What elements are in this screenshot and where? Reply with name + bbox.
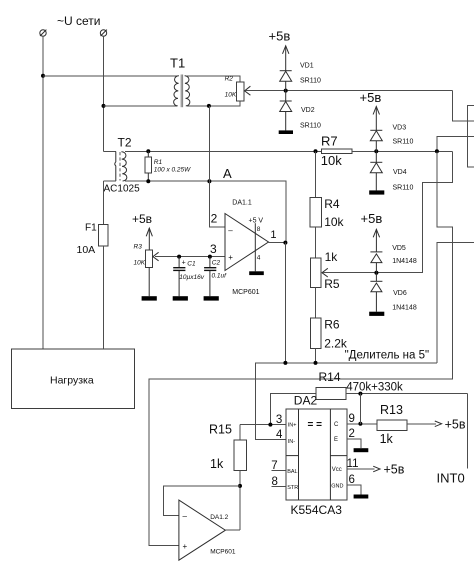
node junction bus / DA1.1 out (283, 361, 287, 365)
power arrow +5в above VD3 (373, 107, 379, 131)
svg-text:10K: 10K (225, 91, 237, 98)
svg-text:+5в: +5в (361, 211, 383, 226)
potentiometer R3 (134, 244, 159, 297)
svg-text:+: + (182, 259, 186, 266)
svg-text:F1: F1 (85, 222, 97, 233)
svg-text:6: 6 (349, 474, 355, 486)
svg-text:VD4: VD4 (393, 169, 407, 176)
svg-text:"Делитель на 5": "Делитель на 5" (345, 350, 430, 362)
wire T1 primary bottom (104, 105, 178, 107)
svg-text:+5в: +5в (445, 418, 466, 432)
svg-text:8: 8 (257, 226, 261, 233)
label +5в (R13) (445, 418, 466, 432)
resistor R4 (310, 151, 345, 229)
svg-text:~U сети: ~U сети (57, 14, 100, 28)
node junction right branch (435, 149, 439, 153)
wire node A line (125, 181, 286, 242)
svg-text:470k+330k: 470k+330k (346, 381, 403, 393)
svg-text:+: + (228, 253, 233, 262)
node junction R1 top (146, 149, 150, 153)
wire T1 secondary top to R2 (187, 76, 240, 82)
svg-text:SR110: SR110 (300, 78, 321, 85)
ground under C1 (173, 296, 188, 300)
pin 9 wire DA2 to R13 (347, 423, 377, 425)
ground under VD6 (369, 312, 384, 316)
svg-text:–: – (183, 512, 188, 521)
power arrow +5в above VD5 (373, 229, 379, 252)
node junction R2 bottom wire / node A column (207, 104, 211, 108)
svg-text:+5 V: +5 V (249, 217, 264, 224)
label +5в (R3) (132, 212, 152, 226)
svg-text:T1: T1 (170, 56, 185, 71)
pin label 2 (349, 428, 355, 440)
node A junction (207, 179, 211, 183)
wire R3 wiper to DA1.1 + input (155, 256, 225, 258)
op-amp DA1.2 (179, 500, 236, 560)
svg-text:STR: STR (287, 485, 298, 491)
wire DA1.1 output (269, 242, 286, 244)
pin label 11 (347, 458, 359, 470)
wire divider bus (256, 363, 437, 440)
node junction R1 bottom (146, 179, 150, 183)
svg-text:3: 3 (276, 414, 282, 426)
pin label 7 (271, 460, 277, 472)
svg-text:IN+: IN+ (288, 423, 297, 429)
svg-text:3: 3 (210, 242, 217, 256)
svg-text:SR110: SR110 (393, 185, 414, 192)
svg-text:VD5: VD5 (392, 245, 406, 252)
node junction pin9/R14 (358, 422, 362, 426)
resistor R13 (377, 403, 407, 446)
svg-text:10A: 10A (77, 244, 96, 256)
label DA2 (294, 394, 318, 408)
ground under C2 (204, 296, 219, 300)
pin 3 wire DA2 (240, 424, 286, 426)
pin label 9 (349, 413, 355, 425)
label +5в (pin 11) (384, 462, 405, 476)
ground under DA1.1 pin4 (249, 271, 264, 275)
capacitor C2 (204, 257, 227, 297)
svg-text:R14: R14 (319, 370, 341, 384)
node junction R14 right (358, 392, 362, 396)
svg-text:SR110: SR110 (300, 123, 321, 130)
svg-text:R4: R4 (324, 197, 340, 211)
wire R14 node down to pin9 (359, 394, 361, 424)
svg-text:T2: T2 (118, 136, 132, 150)
wire R13 to +5в arrow (407, 421, 442, 427)
diode VD3 SR110 (370, 125, 413, 152)
svg-text:C: C (334, 422, 339, 428)
power arrow +5в above VD1 (283, 46, 289, 71)
svg-text:R13: R13 (380, 403, 403, 417)
node junction col2/T1 bottom (102, 104, 106, 108)
wire VD3 node down to DA1.2 + input (149, 151, 452, 545)
node junction col1/T1 top (41, 74, 45, 78)
ground at pin 2 (354, 448, 369, 452)
ground under VD2 (279, 130, 293, 134)
node junction VD3/VD4 (374, 149, 378, 153)
svg-text:R2: R2 (225, 76, 234, 83)
label +5в (VD1) (269, 29, 291, 44)
wire INT0 line down (467, 394, 469, 469)
svg-text:INT0: INT0 (437, 471, 465, 486)
label +5в (VD5) (361, 211, 383, 226)
svg-text:VD6: VD6 (393, 290, 407, 297)
pin 11 wire DA2 to +5в (347, 466, 380, 472)
svg-text:1: 1 (270, 229, 276, 241)
label node A (223, 166, 232, 181)
wire DA1.2 output (225, 529, 240, 531)
transformer T2 (104, 136, 141, 195)
label +5в (VD3) (360, 90, 382, 105)
ground at pin 6 (354, 495, 369, 499)
svg-text:DA1.2: DA1.2 (210, 514, 228, 521)
resistor R6 (310, 287, 348, 363)
svg-text:10k: 10k (324, 215, 344, 229)
load box Нагрузка (12, 349, 135, 408)
node junction bus / R6 (314, 361, 318, 365)
svg-text:MCP601: MCP601 (232, 289, 259, 296)
connector box right edge top (468, 106, 474, 168)
label ~U сети (57, 14, 100, 28)
svg-text:10K: 10K (134, 260, 146, 267)
pin 2 wire DA2 to ground (347, 439, 361, 448)
wire T1 secondary bottom to R2 (187, 101, 240, 106)
svg-text:MCP601: MCP601 (210, 548, 236, 555)
svg-text:+5в: +5в (132, 212, 152, 226)
pin label 8 (272, 476, 278, 488)
svg-text:9: 9 (349, 413, 355, 425)
wire DA1.1 output down to bus (284, 243, 286, 363)
transformer T1 (170, 56, 190, 108)
wire DA1.2 feedback loop (164, 486, 240, 515)
wire T2 to fuse (103, 181, 105, 225)
pin 7 stub (271, 469, 286, 471)
svg-text:1N4148: 1N4148 (392, 258, 417, 265)
svg-text:GND: GND (331, 484, 343, 490)
comparator DA2 K554CA3 (286, 409, 347, 517)
svg-text:+5в: +5в (360, 90, 382, 105)
svg-text:10µx16v: 10µx16v (179, 274, 204, 281)
pin 8 stub (271, 485, 286, 487)
svg-text:VD3: VD3 (393, 125, 407, 132)
svg-text:1k: 1k (380, 432, 394, 446)
ground under R3 (142, 296, 157, 300)
svg-text:C2: C2 (212, 260, 221, 267)
pin label 2 DA1.1 (211, 212, 218, 226)
wire T1 primary top (43, 75, 177, 77)
node junction R15 / feedback (238, 484, 242, 488)
wire VD3 node to connector (437, 136, 474, 151)
pin label 4 (276, 429, 283, 441)
svg-text:BAL: BAL (287, 469, 297, 475)
wire left column from terminal X1 to load (42, 36, 44, 349)
terminal X1 (40, 30, 47, 37)
svg-text:R6: R6 (324, 318, 340, 332)
wire R7 right to VD3 node (352, 150, 452, 152)
svg-text:1N4148: 1N4148 (392, 304, 417, 311)
label INT0 (437, 471, 465, 486)
svg-text:R15: R15 (209, 423, 232, 437)
power arrow +5в above R3 (146, 228, 152, 250)
svg-text:100 x 0.25W: 100 x 0.25W (154, 166, 191, 173)
svg-text:1k: 1k (325, 250, 339, 264)
wire R2 wiper line to right connector (453, 91, 474, 121)
svg-text:Нагрузка: Нагрузка (50, 375, 94, 387)
svg-text:2: 2 (349, 428, 355, 440)
svg-text:DA1.1: DA1.1 (232, 199, 252, 206)
svg-text:VD2: VD2 (301, 107, 315, 114)
wire R2 wiper to VD1 node and onward (246, 90, 453, 92)
diode VD4 SR110 (370, 151, 413, 191)
label Делитель на 5 (345, 350, 430, 362)
svg-text:0.1uf: 0.1uf (212, 272, 228, 279)
svg-text:+: + (183, 542, 188, 551)
svg-text:Vcc: Vcc (332, 467, 342, 473)
svg-text:+5в: +5в (384, 462, 405, 476)
resistor R15 (209, 423, 247, 531)
svg-text:4: 4 (276, 429, 283, 441)
diode VD5 1N4148 (370, 245, 416, 273)
svg-text:K554CA3: K554CA3 (291, 503, 343, 517)
node junction VD1/VD2 (284, 89, 288, 93)
diode VD6 1N4148 (370, 273, 416, 312)
op-amp DA1.1 (225, 199, 277, 296)
svg-text:DA2: DA2 (294, 394, 318, 408)
node junction DA1.1 output (283, 241, 287, 245)
svg-text:+5в: +5в (269, 29, 291, 44)
potentiometer R2 (225, 76, 251, 101)
svg-text:1k: 1k (210, 457, 224, 471)
svg-text:2: 2 (211, 212, 218, 226)
wire right edge pin to divider bus (437, 243, 474, 363)
pin label 3 DA1.1 (210, 242, 217, 256)
svg-text:R3: R3 (134, 244, 143, 251)
svg-text:AC1025: AC1025 (104, 183, 141, 194)
pin label 6 (349, 474, 355, 486)
resistor R7 (321, 134, 352, 168)
capacitor C1 (173, 257, 205, 297)
pin 6 wire DA2 to ground (347, 485, 361, 495)
node junction C2 (208, 255, 212, 259)
node junction VD5/VD6 (374, 271, 378, 275)
potentiometer R5 (310, 227, 340, 291)
svg-text:R5: R5 (324, 277, 340, 291)
pin label 3 (276, 414, 282, 426)
svg-text:–: – (228, 226, 233, 235)
svg-text:= =: = = (308, 420, 323, 431)
ground under VD4 (369, 190, 384, 194)
diode VD2 SR110 (280, 91, 321, 131)
svg-text:11: 11 (347, 458, 359, 470)
wire long net T2 secondary top / R7 line (125, 150, 321, 152)
svg-text:7: 7 (271, 460, 277, 472)
wire fuse column to load (103, 246, 105, 349)
node junction pin3/R14 (268, 423, 272, 427)
svg-text:A: A (223, 166, 232, 181)
svg-text:VD1: VD1 (300, 63, 314, 70)
wire R5 wiper to VD5 node and up (323, 151, 453, 272)
resistor R14 (270, 370, 467, 424)
fuse F1 (77, 222, 108, 256)
svg-text:8: 8 (272, 476, 278, 488)
svg-text:C1: C1 (187, 260, 196, 267)
svg-text:10k: 10k (321, 153, 342, 168)
svg-text:R1: R1 (154, 159, 163, 166)
resistor R1 (145, 151, 191, 181)
terminal X2 (100, 30, 107, 37)
diode VD1 SR110 (280, 63, 321, 91)
node junction R4 top (314, 149, 318, 153)
wire column2 from terminal X2 to T2 (103, 36, 105, 151)
svg-text:4: 4 (257, 254, 261, 261)
svg-text:SR110: SR110 (393, 138, 414, 145)
svg-text:E: E (334, 437, 338, 443)
wire DA1.1 inverting input from node A (209, 106, 225, 227)
svg-text:2.2k: 2.2k (324, 336, 348, 350)
svg-text:IN-: IN- (288, 439, 296, 445)
svg-text:R7: R7 (321, 134, 338, 149)
node junction C1 (177, 255, 181, 259)
